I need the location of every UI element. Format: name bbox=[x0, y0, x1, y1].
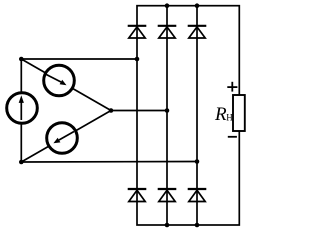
svg-text:R: R bbox=[214, 104, 227, 125]
svg-text:Н: Н bbox=[226, 112, 233, 122]
